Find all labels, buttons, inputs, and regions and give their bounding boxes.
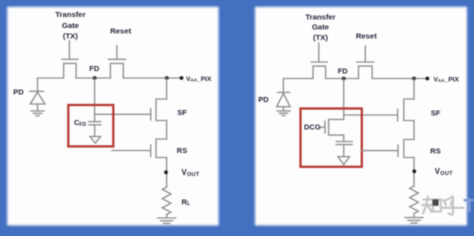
label "Transfer Gate (TX)" R bbox=[305, 13, 335, 42]
svg-text:Reset: Reset bbox=[110, 26, 131, 35]
wire: TX to Reset (through FD) L bbox=[76, 77, 110, 79]
node VOUT dot R bbox=[412, 169, 416, 173]
wire: SF gate lead from FD line L bbox=[95, 113, 151, 115]
capacitor plates R bbox=[336, 142, 352, 145]
transistor RS R bbox=[398, 140, 414, 158]
label SF R bbox=[431, 109, 441, 118]
svg-text:Gate: Gate bbox=[62, 21, 80, 30]
wire: Reset to VAA_PIX L bbox=[123, 77, 181, 79]
svg-text:VAA_PIX: VAA_PIX bbox=[434, 76, 460, 83]
svg-text:SF: SF bbox=[431, 109, 441, 118]
label FD L bbox=[89, 64, 100, 73]
label "Transfer Gate (TX)" L bbox=[55, 10, 85, 40]
node FD dot L bbox=[93, 76, 97, 80]
label "Reset" L bbox=[110, 26, 131, 35]
red highlight box around DCG bbox=[301, 109, 362, 167]
svg-text:FD: FD bbox=[338, 66, 349, 75]
ground under PD L bbox=[31, 111, 44, 116]
svg-text:Reset: Reset bbox=[356, 31, 377, 40]
label VAA_PIX L bbox=[186, 76, 212, 83]
transistor TX channel bump R bbox=[313, 66, 326, 78]
label FD R bbox=[338, 66, 349, 75]
label RL L bbox=[182, 197, 191, 207]
transistor SF L bbox=[151, 78, 167, 121]
wire: RL to ground R bbox=[413, 214, 415, 218]
label PD R bbox=[258, 95, 269, 104]
label "Reset" R bbox=[356, 31, 377, 40]
label VOUT L bbox=[182, 168, 200, 178]
label DCG bbox=[304, 122, 321, 131]
wire: SF source to RS drain L bbox=[166, 121, 168, 140]
red highlight box around CFD bbox=[68, 105, 113, 146]
resistor RL R bbox=[410, 186, 419, 214]
wire: FD down to capacitor L bbox=[94, 78, 96, 122]
svg-text:Gate: Gate bbox=[312, 23, 330, 32]
transistor TX channel bump L bbox=[64, 63, 77, 78]
photodiode PD R bbox=[277, 92, 291, 110]
wire: RL to ground L bbox=[166, 215, 168, 218]
capacitor CFD plates bbox=[89, 122, 101, 125]
svg-text:PD: PD bbox=[13, 87, 24, 96]
svg-text:DCG: DCG bbox=[304, 122, 321, 131]
resistor RL L bbox=[162, 187, 171, 215]
transistor TX gate bar L bbox=[62, 58, 78, 60]
wire: RS source to VOUT and RL L bbox=[166, 158, 168, 188]
svg-text:RS: RS bbox=[177, 146, 187, 155]
transistor SF R bbox=[398, 79, 414, 121]
transistor Reset gate bar L bbox=[108, 58, 125, 60]
wire: reset gate lead L bbox=[116, 46, 118, 60]
node junction dot at SF drain L bbox=[165, 76, 169, 80]
ground triangle under CFD bbox=[90, 137, 101, 144]
left white panel bbox=[7, 7, 218, 226]
svg-text:(TX): (TX) bbox=[63, 31, 78, 40]
label RS R bbox=[430, 146, 440, 155]
wire: DCG source to capacitor R bbox=[343, 135, 345, 141]
wire: reset gate lead R bbox=[364, 46, 366, 62]
svg-text:FD: FD bbox=[89, 64, 100, 73]
transistor DCG bbox=[320, 119, 344, 135]
wire: TX gate lead R bbox=[318, 43, 320, 62]
wire: main row PD to TX L bbox=[38, 78, 64, 91]
wire: capacitor to ground R bbox=[343, 145, 345, 157]
watermark zhihu bbox=[422, 197, 463, 215]
label VOUT R bbox=[435, 167, 453, 177]
label CFD bbox=[74, 118, 86, 128]
wire: RS gate lead L bbox=[112, 150, 151, 152]
wire: capacitor to ground L bbox=[94, 125, 96, 137]
wire: SF gate lead R bbox=[344, 114, 398, 116]
transistor Reset gate bar R bbox=[357, 61, 374, 63]
ground under PD R bbox=[277, 111, 290, 116]
wire: Reset to VAA_PIX R bbox=[372, 78, 427, 80]
svg-text:VAA_PIX: VAA_PIX bbox=[186, 76, 212, 83]
ground triangle under capacitor R bbox=[338, 157, 350, 165]
svg-text:RS: RS bbox=[430, 146, 440, 155]
svg-text:SF: SF bbox=[177, 108, 187, 117]
label SF L bbox=[177, 108, 187, 117]
wire: TX to Reset (through FD) R bbox=[326, 78, 359, 80]
wire: main row PD to TX R bbox=[283, 79, 313, 93]
wire: SF source to RS drain R bbox=[413, 121, 415, 140]
ground under RL R bbox=[405, 218, 423, 223]
transistor Reset channel bump R bbox=[359, 66, 373, 78]
svg-text:Transfer: Transfer bbox=[55, 10, 85, 19]
watermark fragment on blue border bbox=[465, 199, 474, 210]
node FD dot R bbox=[342, 77, 346, 81]
photodiode PD L bbox=[30, 91, 45, 110]
svg-text:PD: PD bbox=[258, 95, 269, 104]
label RS L bbox=[177, 146, 187, 155]
wire: TX gate lead L bbox=[68, 41, 70, 60]
wire: RS gate lead R bbox=[361, 150, 398, 152]
label PD L bbox=[13, 87, 24, 96]
transistor TX gate bar R bbox=[311, 61, 327, 63]
node VAA_PIX terminal dot L bbox=[180, 76, 184, 80]
transistor RS L bbox=[151, 139, 167, 158]
svg-text:(TX): (TX) bbox=[313, 33, 328, 42]
node VOUT dot L bbox=[164, 170, 168, 174]
label VAA_PIX R bbox=[434, 76, 460, 83]
node junction dot at SF drain R bbox=[412, 77, 416, 81]
ground under RL L bbox=[158, 218, 176, 223]
wire: RS source to VOUT and RL R bbox=[413, 158, 415, 187]
node VAA_PIX terminal dot R bbox=[426, 77, 430, 81]
right white panel bbox=[255, 7, 467, 226]
transistor Reset channel bump L bbox=[110, 63, 123, 78]
wire: FD down into DCG R bbox=[343, 79, 345, 120]
svg-text:Transfer: Transfer bbox=[305, 13, 335, 22]
